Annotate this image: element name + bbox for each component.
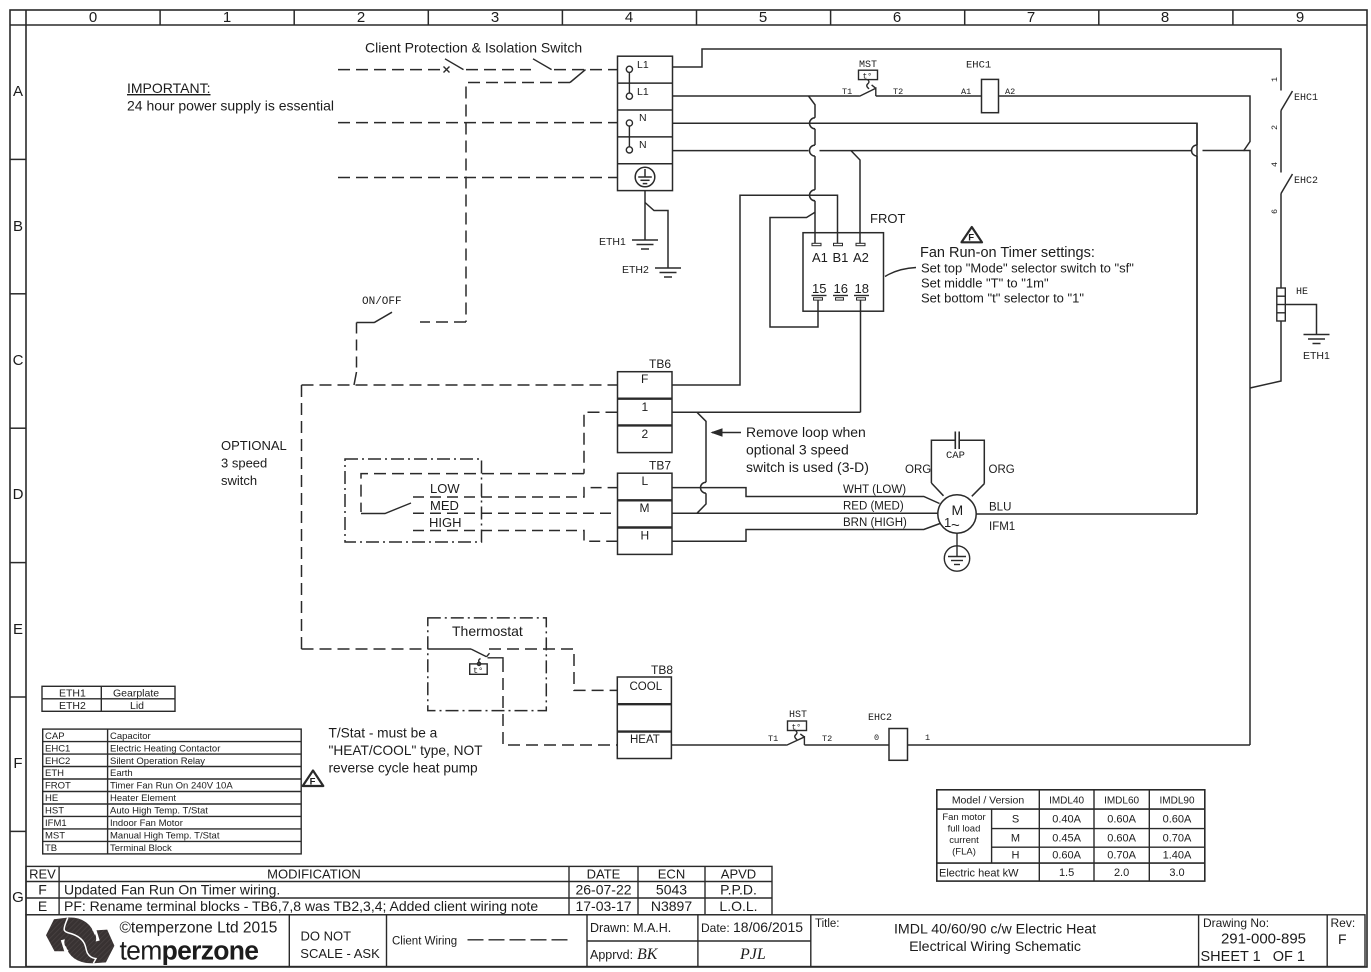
svg-text:IMDL90: IMDL90 bbox=[1159, 796, 1194, 807]
svg-text:1: 1 bbox=[223, 9, 231, 26]
svg-text:2.0: 2.0 bbox=[1114, 867, 1129, 879]
wire N run B bbox=[673, 151, 1251, 746]
thermostat switch bbox=[428, 649, 503, 662]
wire dashed HIGH bbox=[413, 531, 618, 542]
wire client N dashed bbox=[338, 122, 618, 124]
svg-text:Client Protection & Isolation: Client Protection & Isolation Switch bbox=[365, 40, 582, 56]
earth ETH2 bbox=[655, 268, 681, 277]
wire loop TB6-1 TB7-M bbox=[697, 412, 706, 513]
svg-text:E: E bbox=[13, 621, 23, 638]
svg-text:M: M bbox=[640, 501, 650, 515]
svg-text:5043: 5043 bbox=[656, 882, 687, 898]
svg-text:Set bottom "t" selector to "1": Set bottom "t" selector to "1" bbox=[921, 291, 1084, 306]
model table bbox=[937, 790, 1205, 881]
svg-text:0.40A: 0.40A bbox=[1052, 814, 1081, 826]
svg-text:2: 2 bbox=[357, 9, 365, 26]
wire HE to earth bbox=[1285, 305, 1316, 335]
svg-text:Title:: Title: bbox=[815, 918, 840, 930]
svg-text:16: 16 bbox=[834, 281, 848, 296]
svg-text:BK: BK bbox=[637, 946, 659, 963]
wire dashed to thermostat bbox=[302, 648, 428, 650]
svg-text:T1: T1 bbox=[768, 734, 778, 744]
svg-text:P.P.D.: P.P.D. bbox=[720, 882, 757, 898]
svg-text:Gearplate: Gearplate bbox=[113, 687, 159, 699]
switch EHC2 right bbox=[1281, 174, 1293, 288]
svg-text:N: N bbox=[639, 139, 647, 151]
svg-text:EHC2: EHC2 bbox=[45, 756, 70, 767]
FROT terminal 16 bbox=[836, 298, 844, 300]
svg-text:ON/OFF: ON/OFF bbox=[362, 296, 402, 308]
svg-text:0.60A: 0.60A bbox=[1107, 814, 1136, 826]
svg-text:~: ~ bbox=[951, 517, 960, 534]
wire 15 loop bbox=[770, 212, 818, 327]
svg-text:0.60A: 0.60A bbox=[1052, 850, 1081, 862]
wire TB7-M to motor RED bbox=[672, 512, 938, 514]
svg-text:Client Wiring: Client Wiring bbox=[392, 936, 457, 948]
terminal earth symbol bbox=[635, 167, 655, 187]
svg-text:LOW: LOW bbox=[430, 481, 460, 496]
svg-text:Auto High Temp. T/Stat: Auto High Temp. T/Stat bbox=[110, 806, 208, 817]
svg-text:Remove loop when: Remove loop when bbox=[746, 424, 866, 440]
svg-text:18: 18 bbox=[855, 281, 869, 296]
svg-text:TB6: TB6 bbox=[649, 357, 671, 371]
labels TB7 cells bbox=[640, 474, 650, 542]
wire dashed cool bbox=[489, 649, 618, 690]
model table rows bbox=[1011, 814, 1192, 862]
svg-text:Silent Operation Relay: Silent Operation Relay bbox=[110, 756, 205, 767]
wire dashed left vertical bbox=[301, 385, 303, 649]
svg-text:Updated Fan Run On Timer wirin: Updated Fan Run On Timer wiring. bbox=[64, 882, 280, 898]
svg-text:HST: HST bbox=[45, 806, 64, 817]
svg-text:MED: MED bbox=[430, 498, 459, 513]
svg-text:A: A bbox=[13, 83, 23, 100]
labels LOW MED HIGH bbox=[429, 481, 462, 530]
svg-text:T2: T2 bbox=[822, 734, 832, 744]
grid row ticks bbox=[10, 159, 26, 831]
heater element HE bbox=[1277, 288, 1286, 321]
svg-text:H: H bbox=[1012, 850, 1020, 862]
wire dashed LOW bbox=[413, 488, 618, 497]
arrow remove loop bbox=[712, 429, 741, 436]
svg-text:8: 8 bbox=[1161, 9, 1169, 26]
wire F to B1 bbox=[673, 195, 838, 385]
svg-text:2: 2 bbox=[642, 427, 649, 441]
svg-text:IMDL40: IMDL40 bbox=[1049, 796, 1084, 807]
svg-text:Thermostat: Thermostat bbox=[452, 623, 523, 639]
svg-text:F: F bbox=[641, 372, 648, 386]
svg-text:B: B bbox=[13, 218, 23, 235]
component MST bbox=[859, 70, 878, 96]
svg-text:E: E bbox=[38, 898, 47, 914]
svg-text:0: 0 bbox=[874, 733, 879, 743]
svg-text:RED (MED): RED (MED) bbox=[843, 501, 904, 513]
motor earth bbox=[944, 533, 969, 571]
svg-text:0.70A: 0.70A bbox=[1107, 850, 1136, 862]
svg-text:ETH1: ETH1 bbox=[1303, 350, 1330, 362]
wire HST to EHC2 bbox=[804, 744, 889, 746]
model table FLA label bbox=[942, 812, 985, 858]
wire L1 top run bbox=[673, 49, 1282, 91]
timer FROT box bbox=[803, 233, 884, 312]
revision table bbox=[26, 866, 772, 914]
note Fan Run-on Timer settings bbox=[920, 245, 1134, 306]
svg-text:24 hour power supply is essent: 24 hour power supply is essential bbox=[127, 98, 334, 114]
svg-text:L.O.L.: L.O.L. bbox=[719, 898, 757, 914]
svg-text:7: 7 bbox=[1027, 9, 1035, 26]
svg-text:T2: T2 bbox=[893, 87, 903, 97]
svg-text:Manual High Temp. T/Stat: Manual High Temp. T/Stat bbox=[110, 831, 220, 842]
svg-text:t°: t° bbox=[863, 73, 873, 82]
svg-text:1: 1 bbox=[642, 400, 649, 414]
svg-text:HE: HE bbox=[45, 793, 58, 804]
svg-text:t°: t° bbox=[792, 723, 802, 732]
svg-text:REV: REV bbox=[29, 867, 56, 882]
svg-text:T1: T1 bbox=[842, 87, 852, 97]
svg-text:26-07-22: 26-07-22 bbox=[575, 882, 631, 898]
svg-text:IMDL60: IMDL60 bbox=[1104, 796, 1139, 807]
svg-text:0.60A: 0.60A bbox=[1163, 814, 1192, 826]
svg-text:ETH: ETH bbox=[45, 768, 64, 779]
svg-text:ETH1: ETH1 bbox=[599, 236, 626, 248]
component HST bbox=[787, 721, 807, 745]
svg-text:ETH2: ETH2 bbox=[59, 700, 86, 712]
model table header bbox=[952, 795, 1195, 807]
svg-text:IMDL 40/60/90 c/w Electric Hea: IMDL 40/60/90 c/w Electric Heat bbox=[894, 922, 1096, 938]
svg-text:switch: switch bbox=[221, 473, 257, 488]
svg-text:3 speed: 3 speed bbox=[221, 456, 267, 471]
svg-text:3.0: 3.0 bbox=[1169, 867, 1184, 879]
svg-text:Terminal Block: Terminal Block bbox=[110, 843, 172, 854]
terminal labels bbox=[637, 59, 649, 151]
model table kW row bbox=[939, 867, 1185, 880]
grid row letters bbox=[12, 83, 24, 906]
svg-text:1.5: 1.5 bbox=[1059, 867, 1074, 879]
wire dashed to TB6-F bbox=[302, 384, 618, 386]
terminal block TB6 bbox=[618, 372, 673, 453]
cell DO NOT SCALE bbox=[300, 929, 380, 962]
warning triangle F top bbox=[962, 227, 983, 243]
svg-text:M: M bbox=[952, 502, 964, 518]
svg-text:t°: t° bbox=[473, 666, 483, 676]
svg-text:ECN: ECN bbox=[658, 867, 685, 882]
svg-text:PF: Rename terminal blocks - T: PF: Rename terminal blocks - TB6,7,8 was… bbox=[64, 898, 538, 914]
wire client branch dashed bbox=[466, 70, 586, 322]
wire BLU motor bbox=[976, 513, 1197, 515]
legend ETH text bbox=[59, 687, 159, 712]
svg-text:D: D bbox=[13, 486, 24, 503]
svg-text:BRN (HIGH): BRN (HIGH) bbox=[843, 517, 907, 529]
svg-text:F: F bbox=[1338, 931, 1347, 947]
client wiring dash sample bbox=[468, 939, 571, 941]
isolation switch blade 1 bbox=[444, 59, 464, 73]
capacitor CAP plates bbox=[955, 432, 959, 450]
svg-text:©temperzone Ltd 2015: ©temperzone Ltd 2015 bbox=[120, 920, 278, 937]
isolation switch blade 2 bbox=[533, 59, 552, 70]
svg-text:291-000-895: 291-000-895 bbox=[1221, 931, 1306, 948]
svg-text:N3897: N3897 bbox=[651, 898, 692, 914]
terminal block TB8 bbox=[617, 677, 671, 759]
svg-text:EHC2: EHC2 bbox=[868, 713, 892, 724]
motor IFM1 circle bbox=[938, 495, 976, 533]
svg-text:Apprvd:: Apprvd: bbox=[590, 948, 633, 962]
terminal link N-N bbox=[626, 120, 632, 153]
wire dashed heat bbox=[503, 660, 618, 745]
svg-text:IMPORTANT:: IMPORTANT: bbox=[127, 80, 211, 96]
wire heat to HST bbox=[672, 744, 787, 746]
svg-text:DATE: DATE bbox=[587, 867, 621, 882]
svg-text:TB7: TB7 bbox=[649, 459, 671, 473]
svg-text:CAP: CAP bbox=[45, 731, 65, 742]
svg-text:Electrical Wiring Schematic: Electrical Wiring Schematic bbox=[909, 939, 1081, 955]
terminal block TB7 bbox=[618, 473, 673, 554]
svg-text:SCALE - ASK: SCALE - ASK bbox=[300, 946, 380, 961]
svg-text:HEAT: HEAT bbox=[630, 734, 660, 746]
svg-text:6: 6 bbox=[893, 9, 901, 26]
svg-text:F: F bbox=[13, 755, 22, 772]
svg-text:Indoor Fan Motor: Indoor Fan Motor bbox=[110, 818, 183, 829]
svg-text:COOL: COOL bbox=[630, 681, 663, 693]
grid column numbers bbox=[89, 9, 1304, 26]
title text bbox=[894, 922, 1096, 956]
svg-text:IFM1: IFM1 bbox=[45, 818, 67, 829]
wire earth branch ETH2 bbox=[645, 203, 668, 268]
svg-text:L: L bbox=[642, 474, 649, 488]
svg-text:H: H bbox=[641, 528, 650, 542]
svg-text:MODIFICATION: MODIFICATION bbox=[267, 867, 361, 882]
svg-text:EHC1: EHC1 bbox=[1294, 93, 1318, 104]
svg-text:F: F bbox=[38, 882, 47, 898]
svg-text:0.60A: 0.60A bbox=[1107, 833, 1136, 845]
FROT terminal 15 bbox=[814, 298, 823, 300]
svg-text:1: 1 bbox=[1270, 77, 1280, 82]
note T/Stat bbox=[329, 726, 484, 776]
svg-text:OPTIONAL: OPTIONAL bbox=[221, 438, 287, 453]
svg-text:temperzone: temperzone bbox=[120, 936, 259, 966]
svg-text:ORG: ORG bbox=[905, 464, 931, 476]
svg-text:full load: full load bbox=[948, 824, 981, 835]
svg-text:CAP: CAP bbox=[946, 450, 965, 462]
wire dashed TB6-1 stub bbox=[361, 412, 618, 512]
FROT terminal B1 bbox=[834, 243, 843, 245]
svg-text:current: current bbox=[949, 835, 979, 846]
svg-text:DO NOT: DO NOT bbox=[301, 929, 352, 944]
switch EHC1 right bbox=[1281, 91, 1293, 173]
wire dashed MED bbox=[413, 512, 618, 514]
wire N run C bbox=[673, 123, 1198, 514]
svg-text:6: 6 bbox=[1270, 209, 1280, 214]
legend table main bbox=[43, 729, 302, 854]
svg-text:Capacitor: Capacitor bbox=[110, 731, 151, 742]
svg-text:Date: 18/06/2015: Date: 18/06/2015 bbox=[701, 919, 803, 935]
switch box optional 3-speed bbox=[345, 459, 482, 542]
svg-text:F: F bbox=[968, 232, 974, 243]
svg-text:Heater Element: Heater Element bbox=[110, 793, 176, 804]
wire EHC2 to V1 bbox=[908, 744, 1251, 746]
svg-text:Drawing No:: Drawing No: bbox=[1203, 916, 1269, 930]
svg-text:TB8: TB8 bbox=[651, 663, 673, 677]
svg-text:IFM1: IFM1 bbox=[989, 521, 1015, 533]
thermostat t° box bbox=[470, 662, 488, 674]
svg-text:S: S bbox=[1012, 814, 1019, 826]
earth ETH1 bbox=[632, 240, 658, 249]
svg-text:N: N bbox=[639, 112, 647, 124]
svg-text:G: G bbox=[12, 889, 24, 906]
svg-text:0: 0 bbox=[89, 9, 97, 26]
svg-text:L1: L1 bbox=[637, 86, 649, 98]
coil EHC1 bbox=[982, 79, 999, 112]
legend descriptions bbox=[110, 731, 233, 854]
FROT terminal A1 bbox=[812, 243, 821, 245]
legend abbreviations bbox=[45, 731, 71, 854]
svg-text:HST: HST bbox=[789, 710, 807, 721]
hop V2 over wire B bbox=[1192, 145, 1198, 156]
svg-text:3: 3 bbox=[491, 9, 499, 26]
svg-text:Set top "Mode" selector switch: Set top "Mode" selector switch to "sf" bbox=[921, 261, 1134, 276]
svg-text:C: C bbox=[13, 352, 24, 369]
svg-text:M: M bbox=[1011, 833, 1020, 845]
svg-text:switch is used (3-D): switch is used (3-D) bbox=[746, 459, 869, 475]
wire client earth dashed bbox=[338, 177, 618, 179]
svg-text:EHC1: EHC1 bbox=[45, 743, 70, 754]
svg-text:MST: MST bbox=[45, 831, 65, 842]
revision header bbox=[29, 867, 756, 882]
svg-text:Fan motor: Fan motor bbox=[942, 812, 985, 823]
svg-text:17-03-17: 17-03-17 bbox=[575, 898, 631, 914]
svg-text:Model / Version: Model / Version bbox=[952, 795, 1025, 807]
svg-text:Set middle "T" to "1m": Set middle "T" to "1m" bbox=[921, 276, 1049, 291]
revision row E bbox=[38, 898, 758, 914]
svg-text:Fan Run-on Timer settings:: Fan Run-on Timer settings: bbox=[920, 245, 1095, 261]
note remove loop bbox=[746, 424, 869, 475]
svg-text:Timer Fan Run On 240V 10A: Timer Fan Run On 240V 10A bbox=[110, 781, 233, 792]
svg-text:FROT: FROT bbox=[45, 781, 71, 792]
svg-text:A2: A2 bbox=[1005, 87, 1015, 97]
svg-text:2: 2 bbox=[1270, 125, 1280, 130]
svg-text:TB: TB bbox=[45, 843, 57, 854]
svg-text:A2: A2 bbox=[853, 250, 869, 265]
wire A1 riser hops bbox=[810, 118, 816, 243]
grid column ticks bbox=[160, 10, 1233, 25]
warning triangle F legend bbox=[303, 771, 324, 788]
svg-text:(FLA): (FLA) bbox=[952, 847, 976, 858]
switch ON/OFF bbox=[354, 312, 466, 385]
svg-text:1: 1 bbox=[925, 733, 930, 743]
svg-text:L1: L1 bbox=[637, 59, 649, 71]
earth ETH1 right bbox=[1304, 335, 1330, 344]
labels TB6 cells bbox=[641, 372, 649, 441]
svg-text:0.45A: 0.45A bbox=[1052, 833, 1081, 845]
svg-text:Electric heat kW: Electric heat kW bbox=[939, 868, 1019, 880]
wire TB6-1 to 18 bbox=[672, 411, 861, 413]
FROT terminal 18 bbox=[857, 298, 866, 300]
svg-text:WHT (LOW): WHT (LOW) bbox=[843, 484, 906, 496]
wire V2 segments bbox=[1196, 123, 1198, 514]
note OPTIONAL 3 speed switch bbox=[221, 438, 287, 488]
svg-text:Drawn: M.A.H.: Drawn: M.A.H. bbox=[590, 921, 671, 935]
thermostat box bbox=[428, 618, 547, 711]
svg-text:PJL: PJL bbox=[739, 946, 766, 963]
svg-text:Rev:: Rev: bbox=[1331, 916, 1356, 930]
wire earth below block bbox=[644, 191, 646, 240]
wire 18 down bbox=[860, 300, 862, 412]
svg-text:BLU: BLU bbox=[989, 502, 1011, 514]
svg-text:4: 4 bbox=[625, 9, 633, 26]
leader line FROT note bbox=[885, 268, 916, 277]
svg-text:Electric Heating Contactor: Electric Heating Contactor bbox=[110, 743, 220, 754]
svg-text:ORG: ORG bbox=[989, 464, 1015, 476]
labels A1 B1 A2 bbox=[812, 250, 869, 265]
svg-text:5: 5 bbox=[759, 9, 767, 26]
switch 3-speed blade bbox=[361, 503, 411, 514]
svg-text:reverse cycle heat pump: reverse cycle heat pump bbox=[329, 761, 478, 776]
svg-text:F: F bbox=[310, 776, 316, 787]
svg-text:APVD: APVD bbox=[721, 867, 756, 882]
capacitor loop wires bbox=[931, 440, 984, 496]
svg-text:MST: MST bbox=[859, 60, 877, 71]
svg-text:0.70A: 0.70A bbox=[1163, 833, 1192, 845]
svg-text:"HEAT/COOL" type, NOT: "HEAT/COOL" type, NOT bbox=[329, 743, 484, 758]
svg-text:ETH1: ETH1 bbox=[59, 687, 86, 699]
svg-text:B1: B1 bbox=[833, 250, 849, 265]
underlines 15 16 18 bbox=[812, 295, 870, 297]
svg-text:T/Stat - must be a: T/Stat - must be a bbox=[329, 726, 438, 741]
svg-text:Lid: Lid bbox=[130, 700, 144, 712]
note IMPORTANT bbox=[127, 80, 334, 114]
svg-text:A1: A1 bbox=[961, 87, 971, 97]
wire L1 switched run bbox=[673, 96, 1251, 151]
terminal link L1-L1 bbox=[626, 66, 632, 99]
svg-text:ETH2: ETH2 bbox=[622, 264, 649, 276]
wire TB7-L to motor WHT bbox=[672, 488, 940, 504]
svg-text:4: 4 bbox=[1270, 162, 1280, 167]
labels 15 16 18 bbox=[812, 281, 869, 296]
wire HE bottom join bbox=[1250, 321, 1281, 388]
terminal block TB supply bbox=[618, 56, 673, 190]
legend table ETH bbox=[42, 686, 175, 711]
svg-text:optional 3 speed: optional 3 speed bbox=[746, 442, 849, 458]
svg-text:FROT: FROT bbox=[870, 211, 905, 226]
wire client L1 dashed bbox=[338, 69, 618, 71]
svg-text:Earth: Earth bbox=[110, 768, 133, 779]
svg-text:1.40A: 1.40A bbox=[1163, 850, 1192, 862]
FROT terminal A2 bbox=[856, 243, 865, 245]
svg-text:HIGH: HIGH bbox=[429, 515, 462, 530]
wire TB7-H to motor BRN bbox=[672, 524, 940, 542]
title block lines bbox=[26, 915, 1365, 967]
revision row F bbox=[38, 882, 757, 898]
svg-text:15: 15 bbox=[812, 281, 826, 296]
svg-text:EHC1: EHC1 bbox=[966, 60, 991, 72]
svg-text:SHEET 1 OF 1: SHEET 1 OF 1 bbox=[1201, 949, 1306, 965]
svg-text:EHC2: EHC2 bbox=[1294, 176, 1318, 187]
svg-text:HE: HE bbox=[1296, 287, 1308, 298]
svg-text:A1: A1 bbox=[812, 250, 828, 265]
relay EHC2 coil bbox=[889, 729, 908, 761]
svg-text:9: 9 bbox=[1296, 9, 1304, 26]
